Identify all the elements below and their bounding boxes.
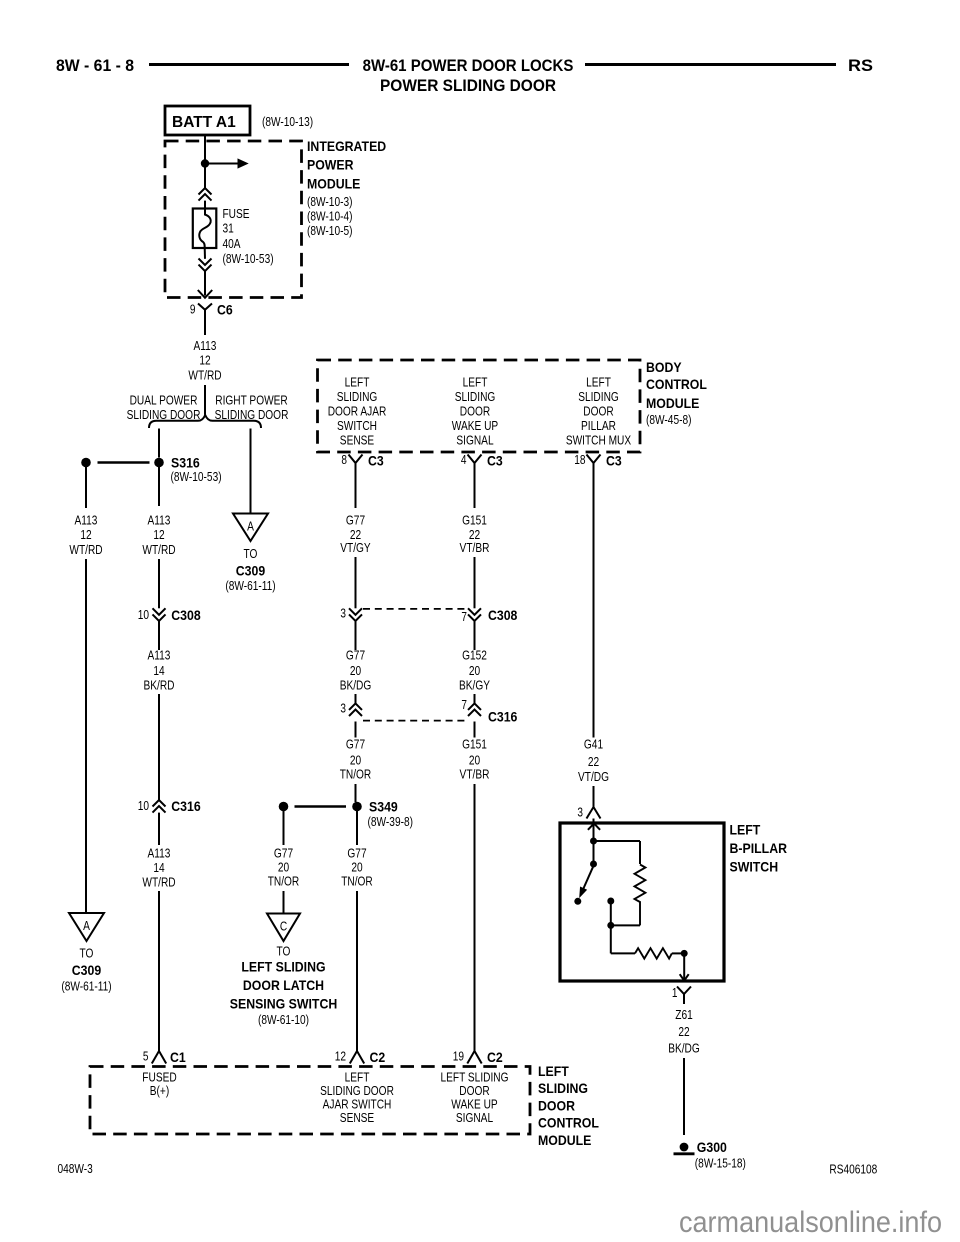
svg-text:LEFT SLIDING: LEFT SLIDING bbox=[241, 959, 325, 975]
svg-text:(8W-10-13): (8W-10-13) bbox=[262, 114, 313, 129]
svg-text:14: 14 bbox=[153, 860, 164, 875]
svg-text:C309: C309 bbox=[72, 962, 102, 978]
svg-text:TN/OR: TN/OR bbox=[340, 766, 372, 781]
svg-text:VT/BR: VT/BR bbox=[460, 540, 490, 555]
svg-text:SLIDING DOOR: SLIDING DOOR bbox=[127, 407, 201, 422]
svg-text:TO: TO bbox=[277, 944, 291, 959]
svg-text:VT/DG: VT/DG bbox=[578, 769, 609, 784]
svg-text:14: 14 bbox=[153, 663, 164, 678]
svg-text:A: A bbox=[83, 918, 90, 933]
svg-text:DOOR: DOOR bbox=[460, 404, 490, 419]
svg-text:SLIDING: SLIDING bbox=[337, 389, 378, 404]
svg-text:SWITCH: SWITCH bbox=[337, 418, 377, 433]
svg-text:SENSING SWITCH: SENSING SWITCH bbox=[230, 995, 338, 1011]
svg-text:20: 20 bbox=[350, 663, 361, 678]
svg-text:(8W-10-4): (8W-10-4) bbox=[307, 209, 353, 224]
svg-text:CONTROL: CONTROL bbox=[646, 376, 707, 392]
svg-text:A113: A113 bbox=[148, 512, 171, 527]
svg-text:31: 31 bbox=[223, 221, 234, 236]
svg-text:10: 10 bbox=[138, 798, 149, 813]
svg-text:9: 9 bbox=[190, 302, 196, 317]
svg-text:A: A bbox=[247, 519, 254, 534]
svg-text:MODULE: MODULE bbox=[307, 176, 360, 192]
svg-text:C3: C3 bbox=[368, 453, 384, 469]
svg-text:3: 3 bbox=[340, 605, 346, 620]
svg-text:LEFT: LEFT bbox=[345, 374, 370, 389]
svg-text:G41: G41 bbox=[584, 736, 603, 751]
svg-text:WT/RD: WT/RD bbox=[69, 542, 102, 557]
svg-text:8W - 61 - 8: 8W - 61 - 8 bbox=[56, 57, 134, 75]
svg-text:G152: G152 bbox=[462, 648, 487, 663]
svg-text:VT/GY: VT/GY bbox=[340, 540, 371, 555]
svg-text:7: 7 bbox=[461, 697, 467, 712]
svg-text:BK/RD: BK/RD bbox=[144, 677, 175, 692]
svg-text:3: 3 bbox=[340, 701, 346, 716]
svg-text:C316: C316 bbox=[488, 709, 518, 725]
svg-text:1: 1 bbox=[672, 985, 678, 1000]
svg-text:(8W-10-53): (8W-10-53) bbox=[223, 251, 274, 266]
svg-text:C308: C308 bbox=[488, 607, 518, 623]
svg-text:18: 18 bbox=[574, 452, 585, 467]
svg-text:CONTROL: CONTROL bbox=[538, 1115, 599, 1131]
svg-text:DOOR: DOOR bbox=[583, 404, 613, 419]
svg-text:8: 8 bbox=[341, 452, 347, 467]
svg-text:BK/DG: BK/DG bbox=[668, 1041, 700, 1056]
svg-text:C3: C3 bbox=[487, 453, 503, 469]
svg-text:WT/RD: WT/RD bbox=[142, 875, 175, 890]
svg-text:(8W-61-10): (8W-61-10) bbox=[258, 1012, 309, 1027]
svg-text:DOOR AJAR: DOOR AJAR bbox=[328, 404, 387, 419]
svg-text:12: 12 bbox=[153, 527, 164, 542]
svg-text:SLIDING DOOR: SLIDING DOOR bbox=[215, 407, 289, 422]
svg-text:5: 5 bbox=[143, 1049, 149, 1064]
svg-text:G77: G77 bbox=[346, 648, 365, 663]
svg-text:A113: A113 bbox=[75, 512, 98, 527]
svg-text:LEFT: LEFT bbox=[586, 374, 611, 389]
svg-text:C1: C1 bbox=[170, 1049, 186, 1065]
svg-text:WT/RD: WT/RD bbox=[142, 542, 175, 557]
svg-text:BATT A1: BATT A1 bbox=[172, 114, 236, 131]
svg-text:12: 12 bbox=[199, 352, 210, 367]
svg-text:20: 20 bbox=[469, 752, 480, 767]
svg-text:MODULE: MODULE bbox=[646, 395, 699, 411]
svg-text:SWITCH: SWITCH bbox=[730, 858, 779, 874]
svg-text:(8W-10-3): (8W-10-3) bbox=[307, 194, 353, 209]
svg-text:19: 19 bbox=[453, 1049, 464, 1064]
svg-text:C3: C3 bbox=[606, 453, 622, 469]
svg-text:TN/OR: TN/OR bbox=[268, 874, 300, 889]
svg-text:(8W-15-18): (8W-15-18) bbox=[695, 1155, 746, 1170]
svg-text:MODULE: MODULE bbox=[538, 1132, 591, 1148]
svg-text:(8W-10-53): (8W-10-53) bbox=[171, 469, 222, 484]
svg-text:(8W-61-11): (8W-61-11) bbox=[225, 578, 275, 593]
svg-text:10: 10 bbox=[138, 607, 149, 622]
svg-text:DOOR LATCH: DOOR LATCH bbox=[243, 977, 324, 993]
svg-text:(8W-10-5): (8W-10-5) bbox=[307, 223, 353, 238]
svg-text:4: 4 bbox=[461, 452, 467, 467]
svg-text:G77: G77 bbox=[346, 513, 365, 528]
svg-text:3: 3 bbox=[577, 805, 583, 820]
svg-text:LEFT: LEFT bbox=[463, 374, 488, 389]
svg-text:C6: C6 bbox=[217, 302, 233, 318]
svg-text:C309: C309 bbox=[236, 563, 266, 579]
svg-text:DOOR: DOOR bbox=[538, 1097, 575, 1113]
svg-text:S316: S316 bbox=[171, 455, 200, 471]
svg-text:20: 20 bbox=[278, 860, 289, 875]
svg-text:BK/DG: BK/DG bbox=[340, 677, 372, 692]
svg-text:(8W-45-8): (8W-45-8) bbox=[646, 412, 692, 427]
svg-text:G300: G300 bbox=[697, 1139, 727, 1155]
svg-text:A113: A113 bbox=[148, 846, 171, 861]
svg-text:G77: G77 bbox=[346, 737, 365, 752]
svg-text:A113: A113 bbox=[194, 338, 217, 353]
svg-text:7: 7 bbox=[461, 609, 467, 624]
svg-text:C2: C2 bbox=[487, 1049, 503, 1065]
svg-text:C308: C308 bbox=[171, 607, 201, 623]
svg-text:TO: TO bbox=[244, 546, 258, 561]
svg-text:12: 12 bbox=[335, 1049, 346, 1064]
svg-text:POWER: POWER bbox=[307, 157, 354, 173]
svg-text:FUSE: FUSE bbox=[223, 206, 250, 221]
svg-text:C: C bbox=[280, 919, 287, 934]
svg-text:20: 20 bbox=[351, 860, 362, 875]
svg-text:PILLAR: PILLAR bbox=[581, 418, 616, 433]
svg-text:G77: G77 bbox=[274, 846, 293, 861]
svg-text:SIGNAL: SIGNAL bbox=[456, 433, 493, 448]
svg-text:SIGNAL: SIGNAL bbox=[456, 1110, 493, 1125]
svg-text:C316: C316 bbox=[171, 798, 201, 814]
svg-text:TO: TO bbox=[80, 946, 94, 961]
svg-text:RS: RS bbox=[848, 57, 873, 75]
svg-text:TN/OR: TN/OR bbox=[341, 874, 373, 889]
svg-text:20: 20 bbox=[350, 752, 361, 767]
svg-text:40A: 40A bbox=[223, 236, 241, 251]
svg-text:SLIDING: SLIDING bbox=[455, 389, 496, 404]
svg-text:SLIDING: SLIDING bbox=[578, 389, 619, 404]
svg-text:G151: G151 bbox=[462, 513, 487, 528]
svg-text:INTEGRATED: INTEGRATED bbox=[307, 138, 386, 154]
svg-text:SENSE: SENSE bbox=[340, 1110, 375, 1125]
svg-text:RS406108: RS406108 bbox=[829, 1161, 877, 1176]
svg-text:B-PILLAR: B-PILLAR bbox=[730, 840, 788, 856]
svg-text:S349: S349 bbox=[369, 799, 398, 815]
svg-text:G151: G151 bbox=[462, 737, 487, 752]
svg-text:8W-61 POWER DOOR LOCKS: 8W-61 POWER DOOR LOCKS bbox=[363, 57, 574, 75]
svg-text:22: 22 bbox=[678, 1024, 689, 1039]
svg-text:carmanualsonline.info: carmanualsonline.info bbox=[679, 1206, 942, 1239]
svg-text:Z61: Z61 bbox=[675, 1007, 693, 1022]
svg-text:WT/RD: WT/RD bbox=[188, 368, 221, 383]
svg-text:SLIDING: SLIDING bbox=[538, 1080, 588, 1096]
svg-text:B(+): B(+) bbox=[150, 1083, 169, 1098]
svg-text:048W-3: 048W-3 bbox=[58, 1161, 93, 1176]
svg-text:WAKE UP: WAKE UP bbox=[452, 418, 498, 433]
svg-text:VT/BR: VT/BR bbox=[460, 766, 490, 781]
svg-text:SENSE: SENSE bbox=[340, 433, 375, 448]
svg-text:(8W-39-8): (8W-39-8) bbox=[368, 814, 414, 829]
svg-text:DUAL POWER: DUAL POWER bbox=[130, 392, 198, 407]
svg-text:BODY: BODY bbox=[646, 359, 682, 375]
svg-text:12: 12 bbox=[80, 527, 91, 542]
svg-text:SWITCH MUX: SWITCH MUX bbox=[566, 433, 632, 448]
svg-text:LEFT: LEFT bbox=[538, 1063, 569, 1079]
svg-text:(8W-61-11): (8W-61-11) bbox=[61, 979, 111, 994]
svg-text:20: 20 bbox=[469, 663, 480, 678]
svg-text:BK/GY: BK/GY bbox=[459, 677, 490, 692]
svg-text:22: 22 bbox=[588, 754, 599, 769]
svg-text:POWER SLIDING DOOR: POWER SLIDING DOOR bbox=[380, 77, 556, 95]
svg-text:G77: G77 bbox=[347, 846, 366, 861]
svg-text:C2: C2 bbox=[370, 1049, 386, 1065]
svg-text:LEFT: LEFT bbox=[730, 821, 761, 837]
svg-text:RIGHT POWER: RIGHT POWER bbox=[215, 392, 288, 407]
svg-text:A113: A113 bbox=[148, 648, 171, 663]
